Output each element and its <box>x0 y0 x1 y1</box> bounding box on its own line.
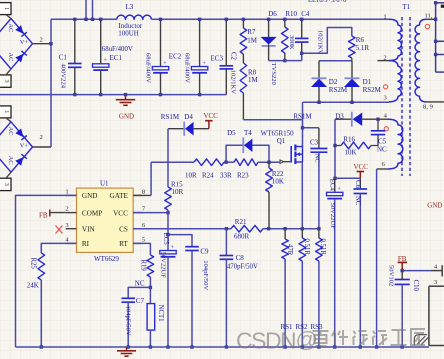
svg-text:EE16/5+5/6+6: EE16/5+5/6+6 <box>308 0 347 4</box>
no-connect marker pin3 <box>56 226 63 234</box>
svg-text:1: 1 <box>3 110 10 113</box>
svg-text:50V22UF: 50V22UF <box>329 203 336 230</box>
wire pin8,9 lead <box>427 101 444 103</box>
svg-text:1M: 1M <box>247 37 258 45</box>
wire D3 anode column <box>334 119 336 178</box>
svg-text:680R: 680R <box>234 233 250 241</box>
ERC marker pin4 <box>384 127 388 131</box>
svg-text:300K: 300K <box>288 35 295 50</box>
resistor R15 <box>167 129 169 187</box>
wire VCC node <box>335 177 360 179</box>
wire pin8 GATE <box>133 194 151 196</box>
capacitor C7 <box>128 287 150 298</box>
svg-text:2: 2 <box>40 37 43 44</box>
svg-text:50V22UF: 50V22UF <box>159 252 166 279</box>
svg-text:+: + <box>202 60 206 67</box>
resistor R19 <box>147 255 154 277</box>
component NCT1 <box>147 304 155 331</box>
junction source CS <box>301 227 304 230</box>
junction R25 bottom <box>40 345 43 348</box>
svg-text:NCT1: NCT1 <box>157 305 164 322</box>
svg-text:R19: R19 <box>139 260 146 272</box>
watermark chinese characters <box>313 329 426 346</box>
winding aux 4-6 <box>388 119 403 169</box>
svg-text:V+: V+ <box>20 39 29 46</box>
wire bottom ground rail <box>16 346 430 348</box>
winding secondary 11-8,9 <box>415 19 426 102</box>
svg-text:AC: AC <box>7 127 14 136</box>
wire snubber bottom row <box>269 60 302 62</box>
svg-text:GND: GND <box>119 113 134 121</box>
svg-text:RT: RT <box>119 240 128 248</box>
svg-text:2: 2 <box>383 55 386 62</box>
svg-text:8, 9: 8, 9 <box>423 104 434 111</box>
svg-text:0.51R: 0.51R <box>303 239 310 256</box>
capacitor C3 <box>303 127 319 129</box>
svg-text:104pF/50V: 104pF/50V <box>125 306 132 336</box>
output connector wires <box>435 3 437 72</box>
svg-text:RS2M: RS2M <box>329 86 348 94</box>
svg-text:WT65R150: WT65R150 <box>261 129 295 137</box>
svg-text:AC: AC <box>7 23 14 32</box>
svg-text:5.1R: 5.1R <box>356 44 370 52</box>
wire pin4 RI to R25 <box>41 243 76 253</box>
capacitor EC5 <box>160 251 176 254</box>
svg-text:C7: C7 <box>136 297 145 305</box>
junction D1 anode <box>350 101 353 104</box>
resistor R7 <box>242 19 244 28</box>
svg-text:NC: NC <box>135 279 145 287</box>
resistor R24 <box>194 159 224 166</box>
capacitor EC3 <box>199 19 201 66</box>
wire stub up A <box>85 0 87 19</box>
svg-text:VCC: VCC <box>353 163 368 171</box>
junction stub A <box>84 18 87 21</box>
wire source column <box>301 162 303 229</box>
resistor R16 <box>341 142 371 149</box>
ground GND mid rail <box>125 95 127 100</box>
svg-text:D3: D3 <box>335 113 344 121</box>
svg-text:U1: U1 <box>100 179 109 187</box>
capacitor EC1 <box>100 19 102 64</box>
svg-text:50V102: 50V102 <box>388 265 395 286</box>
svg-text:RS1M: RS1M <box>293 113 312 121</box>
svg-text:C1: C1 <box>59 53 68 61</box>
junction V+ BD1 <box>49 42 52 45</box>
svg-text:C3: C3 <box>310 139 319 147</box>
junction D2 anode <box>317 101 320 104</box>
wire pin7 VCC <box>133 212 168 214</box>
wire R24-R23 <box>224 161 234 163</box>
capacitor C10 <box>401 271 403 280</box>
wire drain to transformer pin3 <box>303 101 390 103</box>
svg-text:C6: C6 <box>354 180 361 189</box>
svg-text:R23: R23 <box>237 171 249 179</box>
resistor R8 <box>242 54 244 63</box>
svg-text:68uF/400V: 68uF/400V <box>144 53 151 83</box>
junction C3 bottom <box>317 227 320 230</box>
capacitor EC2 <box>160 19 162 66</box>
svg-text:VCC: VCC <box>113 209 128 217</box>
svg-text:GATE: GATE <box>110 192 129 200</box>
svg-text:EC3: EC3 <box>211 54 224 62</box>
svg-text:D1: D1 <box>363 78 372 86</box>
wire gate row left <box>151 161 194 163</box>
capacitor EC4 <box>334 178 336 192</box>
wire FB to connector pin4 <box>402 270 431 272</box>
svg-text:C10: C10 <box>412 280 419 292</box>
svg-text:EC5: EC5 <box>162 233 169 246</box>
svg-text:EC4: EC4 <box>328 179 335 192</box>
svg-text:D4: D4 <box>184 113 193 121</box>
svg-text:1: 1 <box>3 7 10 10</box>
junction R16 left <box>333 144 336 147</box>
svg-text:R25: R25 <box>30 258 37 270</box>
svg-text:10R: 10R <box>185 171 197 179</box>
wire pin1 GND to bottom rail <box>16 195 77 347</box>
wire snubber riser <box>301 53 303 60</box>
svg-text:+: + <box>163 60 167 67</box>
svg-text:V+: V+ <box>20 143 29 150</box>
svg-text:AC: AC <box>7 52 14 61</box>
transistor Q1 MOSFET <box>290 146 292 163</box>
diode D6 TVS <box>268 19 270 37</box>
wire top rail left <box>51 18 117 20</box>
svg-text:100UH: 100UH <box>118 29 139 37</box>
junction drain node <box>301 126 304 129</box>
ground bottom rail <box>126 347 128 350</box>
inductor L3 <box>117 15 152 19</box>
power port VCC (D4) <box>208 121 210 129</box>
op-amp U1 WT6629 controller <box>77 188 134 252</box>
capacitor C2 <box>225 19 227 66</box>
wire R8 down <box>242 93 244 120</box>
winding primary 1-2 <box>389 19 401 60</box>
wire pin6 lead <box>377 168 388 170</box>
wire pin11 lead <box>427 18 436 20</box>
resistor R22 <box>268 162 270 168</box>
resistor R23 <box>234 159 258 166</box>
capacitor C8 <box>225 229 227 256</box>
resistor RS1 <box>284 229 286 239</box>
svg-text:GND: GND <box>427 202 442 210</box>
svg-text:470pF/50V: 470pF/50V <box>227 263 258 270</box>
wire clamp row <box>319 60 352 62</box>
svg-text:T1: T1 <box>402 3 410 11</box>
power port VCC (EC4) <box>359 172 361 179</box>
wire mid ground rail <box>0 94 226 96</box>
junction C9 branch <box>166 233 169 236</box>
diode D5 bypass <box>226 145 242 162</box>
junction bypass right <box>267 161 270 164</box>
svg-text:Q1: Q1 <box>277 137 286 145</box>
svg-text:VIN: VIN <box>82 225 96 233</box>
junction RS1 top <box>283 227 286 230</box>
bridge rectifier BD2 <box>0 122 33 172</box>
svg-text:CS: CS <box>119 225 128 233</box>
chassis ground symbol <box>414 335 427 346</box>
svg-text:47R: 47R <box>286 244 293 256</box>
junction R19 C7 <box>149 286 152 289</box>
ERC marker pin11 <box>425 24 429 28</box>
svg-text:33R: 33R <box>220 171 232 179</box>
svg-text:C5: C5 <box>378 137 387 145</box>
wire V+ bus vertical <box>50 19 52 147</box>
ERC marker D1 <box>384 85 388 89</box>
diode D1 <box>351 61 353 78</box>
junction stub B <box>91 18 94 21</box>
diode D3 <box>335 118 351 120</box>
junction R22 bottom <box>267 227 270 230</box>
svg-text:0.51R: 0.51R <box>319 239 326 256</box>
svg-text:C2: C2 <box>229 52 236 61</box>
svg-text:104pF/50V: 104pF/50V <box>202 260 209 290</box>
capacitor C6 <box>359 178 361 189</box>
svg-text:10R: 10R <box>172 188 184 196</box>
wire bypass to R6 top <box>302 28 352 54</box>
svg-text:RS2M: RS2M <box>363 86 382 94</box>
svg-text:+: + <box>103 57 107 64</box>
svg-text:T4: T4 <box>244 129 252 137</box>
svg-text:R7: R7 <box>247 28 256 36</box>
svg-text:D6: D6 <box>268 10 277 18</box>
connector pin 4 <box>431 270 443 272</box>
svg-text:FB: FB <box>39 212 48 220</box>
svg-text:NC: NC <box>313 154 320 164</box>
junction C5 top <box>376 118 379 121</box>
svg-text:TVS220: TVS220 <box>270 63 277 86</box>
svg-text:+: + <box>171 244 175 251</box>
svg-text:D5: D5 <box>227 129 236 137</box>
wire stub up B <box>92 0 94 19</box>
resistor R25 <box>38 253 45 280</box>
wire CS row right <box>263 228 319 230</box>
core line 1 <box>401 17 403 176</box>
svg-text:10K: 10K <box>345 149 357 157</box>
wire pin5 RT <box>133 243 150 255</box>
svg-text:AC: AC <box>7 156 14 165</box>
wire drain column <box>302 102 304 146</box>
junction bypass left <box>224 161 227 164</box>
wire pin6 CS row left <box>133 228 231 230</box>
capacitor C5 <box>371 130 385 132</box>
svg-text:R24: R24 <box>202 171 214 179</box>
wire R8 to drain column <box>243 119 302 121</box>
svg-text:RS1M: RS1M <box>161 113 180 121</box>
svg-text:68uF/400V: 68uF/400V <box>102 46 133 53</box>
svg-text:68uF/400V: 68uF/400V <box>184 53 191 83</box>
svg-text:GND: GND <box>82 192 98 200</box>
pin arrow Q1 gate <box>280 160 284 164</box>
svg-text:1: 1 <box>65 189 68 196</box>
svg-text:1M: 1M <box>248 76 259 84</box>
capacitor C4 <box>301 19 303 38</box>
capacitor C9 <box>168 235 192 247</box>
resistor R6 <box>349 36 356 58</box>
junction C8 top <box>225 227 228 230</box>
bridge rectifier BD1 <box>0 19 33 69</box>
svg-text:2: 2 <box>65 206 68 213</box>
svg-text:R6: R6 <box>356 36 365 44</box>
svg-text:24K: 24K <box>27 282 39 290</box>
junction FB C10 <box>401 269 404 272</box>
svg-text:R10: R10 <box>285 10 297 18</box>
svg-text:2: 2 <box>40 134 43 141</box>
svg-text:C9: C9 <box>200 247 209 255</box>
svg-text:C4: C4 <box>301 10 310 18</box>
svg-text:10K: 10K <box>272 178 284 186</box>
resistor R21 <box>231 225 263 232</box>
svg-text:R21: R21 <box>235 218 247 226</box>
svg-text:3: 3 <box>3 183 10 186</box>
svg-text:CSDN: CSDN <box>236 328 295 354</box>
svg-text:102/1KV: 102/1KV <box>317 30 324 55</box>
core line 2 <box>409 17 411 176</box>
resistor RS3 <box>318 229 320 238</box>
svg-text:3: 3 <box>3 80 10 83</box>
svg-text:C8: C8 <box>236 254 245 262</box>
diode D4 <box>168 128 184 130</box>
capacitor C1 <box>74 19 76 63</box>
wire gate riser <box>150 162 152 195</box>
svg-text:COMP: COMP <box>82 209 102 217</box>
connector pin 3 box <box>429 285 444 287</box>
junction EC4 VCC <box>333 177 336 180</box>
wire R23 to gate <box>258 161 280 163</box>
svg-text:400V224: 400V224 <box>60 64 67 89</box>
svg-text:VCC: VCC <box>203 112 218 120</box>
wire top rail right <box>151 18 389 20</box>
wire BD1 V+ to node <box>33 43 52 45</box>
diode D2 <box>318 61 320 78</box>
connector box corner <box>441 5 444 8</box>
svg-text:1: 1 <box>383 13 386 20</box>
svg-text:D2: D2 <box>329 78 338 86</box>
svg-text:WT6629: WT6629 <box>94 255 119 263</box>
svg-text:NC: NC <box>354 196 361 206</box>
svg-text:NC: NC <box>377 146 387 154</box>
svg-text:R16: R16 <box>343 136 355 144</box>
svg-text:11,: 11, <box>425 13 433 20</box>
wire BD2 V+ to node <box>33 146 52 148</box>
svg-text:+: + <box>337 186 341 193</box>
svg-text:EC2: EC2 <box>169 52 182 60</box>
wire pin6 to ground <box>376 169 378 347</box>
svg-text:RI: RI <box>82 240 90 248</box>
svg-text:102/1KV: 102/1KV <box>229 70 236 95</box>
junction VCC pin7 <box>166 211 169 214</box>
svg-text:EC1: EC1 <box>110 54 123 62</box>
resistor R10 <box>284 19 286 27</box>
winding primary 2-3 <box>389 61 401 102</box>
svg-text:L3: L3 <box>126 3 134 11</box>
wire pin2 lead <box>378 60 390 62</box>
